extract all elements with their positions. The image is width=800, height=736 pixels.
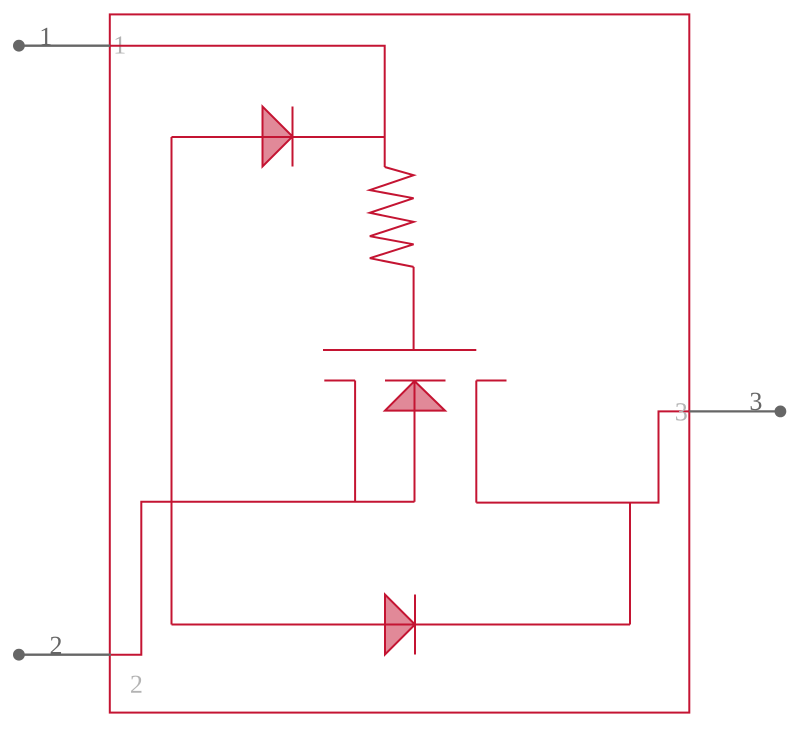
wire: D2 cathode to drain rail drop (415, 624, 630, 626)
wire: drain rail (476, 411, 689, 502)
pin 2 lead wire (19, 654, 111, 656)
pin 3 terminal dot (775, 406, 787, 418)
mosfet Q1 channel segment left (324, 380, 355, 382)
pin 1 number label (42, 28, 51, 45)
wire: Q1 drain lead (475, 381, 477, 503)
pin 2 terminal dot (13, 649, 25, 661)
wire: source rail to pin 2 (111, 502, 415, 655)
wire: D2 anode branch (172, 624, 416, 626)
wire: anode bus vertical (171, 137, 173, 625)
mosfet Q1 channel segment middle (385, 380, 446, 382)
wire: Q1 bulk lead (354, 381, 356, 502)
pin 3 lead wire (689, 410, 780, 412)
wire: drain rail to D2 cathode (629, 503, 631, 625)
mosfet Q1 body arrow (385, 381, 445, 411)
diode D1 (gate clamp, anode left) (263, 107, 293, 167)
component outline box (110, 14, 690, 712)
wire: pin1 to gate node (110, 46, 385, 167)
pin 2 inner pad name (131, 676, 141, 693)
pin 2 number label (51, 637, 61, 654)
mosfet Q1 channel segment right (476, 380, 506, 382)
wire: R1 bottom to gate (413, 267, 415, 350)
pin 1 lead wire (19, 45, 110, 47)
resistor R1 (gate series) (370, 167, 414, 267)
wire: diode D1 anode branch (172, 136, 293, 138)
pin 1 inner pad name (115, 36, 124, 53)
pin 3 inner pad name (676, 403, 687, 420)
mosfet Q1 gate bar (323, 349, 476, 351)
diode D2 (body diode, anode left) (385, 595, 415, 655)
pin 1 terminal dot (13, 40, 25, 52)
pin 3 number label (751, 393, 762, 410)
wire: D1 cathode to gate node (293, 136, 385, 138)
wire: Q1 source lead (414, 381, 416, 502)
